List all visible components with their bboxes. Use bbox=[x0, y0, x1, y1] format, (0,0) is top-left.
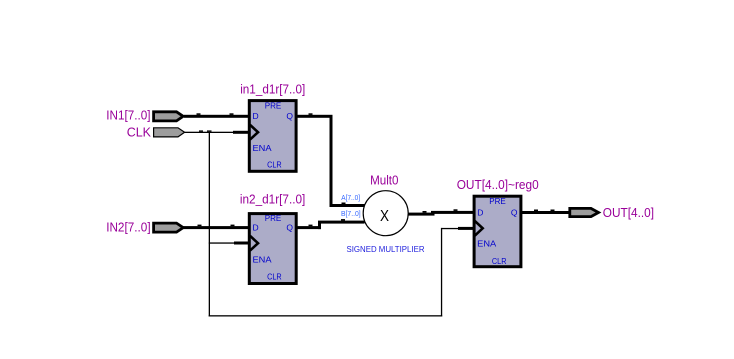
svg-text:Q: Q bbox=[511, 208, 518, 218]
svg-text:in1_d1r[7..0]: in1_d1r[7..0] bbox=[240, 83, 305, 97]
svg-text:CLK: CLK bbox=[127, 126, 152, 140]
svg-text:IN1[7..0]: IN1[7..0] bbox=[106, 109, 150, 123]
svg-text:PRE: PRE bbox=[489, 196, 506, 206]
svg-text:D: D bbox=[477, 208, 483, 218]
svg-text:D: D bbox=[253, 111, 259, 121]
svg-text:CLR: CLR bbox=[492, 256, 507, 266]
svg-text:OUT[4..0]: OUT[4..0] bbox=[603, 206, 654, 220]
svg-text:CLR: CLR bbox=[267, 272, 282, 282]
svg-text:Q: Q bbox=[286, 111, 293, 121]
svg-text:CLR: CLR bbox=[267, 160, 282, 170]
svg-text:B[7..0]: B[7..0] bbox=[341, 209, 361, 218]
svg-text:A[7..0]: A[7..0] bbox=[341, 193, 360, 202]
svg-text:in2_d1r[7..0]: in2_d1r[7..0] bbox=[240, 192, 305, 206]
svg-text:OUT[4..0]~reg0: OUT[4..0]~reg0 bbox=[457, 178, 539, 192]
svg-text:PRE: PRE bbox=[265, 213, 282, 223]
svg-text:Q: Q bbox=[286, 222, 293, 232]
svg-text:ENA: ENA bbox=[477, 238, 496, 248]
svg-text:ENA: ENA bbox=[253, 143, 272, 153]
svg-text:D: D bbox=[253, 222, 259, 232]
svg-text:PRE: PRE bbox=[265, 101, 282, 111]
svg-text:X: X bbox=[380, 208, 390, 225]
svg-text:Mult0: Mult0 bbox=[370, 174, 398, 188]
svg-text:ENA: ENA bbox=[253, 254, 272, 264]
svg-text:IN2[7..0]: IN2[7..0] bbox=[106, 221, 150, 235]
svg-text:SIGNED MULTIPLIER: SIGNED MULTIPLIER bbox=[347, 244, 425, 254]
